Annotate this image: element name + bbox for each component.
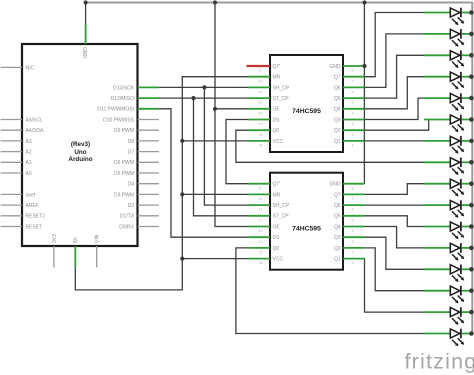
wire U2 Q2 to LED14 bbox=[364, 248, 429, 291]
Arduino pin A3 (left, unconnected) bbox=[1, 139, 32, 145]
LED7 bbox=[424, 136, 470, 154]
junction top bus to OE drop bbox=[213, 0, 217, 4]
svg-text:1: 1 bbox=[352, 144, 354, 148]
wire U1 Q1 to LED7 bbox=[364, 140, 429, 142]
wire U1 Q5 to LED3 bbox=[364, 55, 429, 98]
wire U1 Q2 to LED6 bbox=[364, 120, 429, 131]
svg-text:Q2: Q2 bbox=[334, 128, 341, 134]
fritzing watermark bbox=[405, 350, 474, 374]
svg-text:A1: A1 bbox=[26, 160, 32, 166]
junction LED9 cathode to GND rail bbox=[469, 181, 474, 186]
svg-text:14: 14 bbox=[259, 122, 263, 126]
svg-text:4: 4 bbox=[352, 111, 354, 115]
wire U1 Q7' serial-out stub (red) bbox=[247, 65, 271, 67]
wire U1 Q4 to LED4 bbox=[364, 77, 429, 109]
svg-text:D11 PWM/MOSI: D11 PWM/MOSI bbox=[97, 107, 134, 113]
svg-text:Q0: Q0 bbox=[273, 128, 280, 134]
Arduino pin D2 (right, unconnected) bbox=[128, 203, 159, 209]
wire GND bus down to U1 OE and U2 OE bbox=[215, 3, 249, 227]
U1 pin 12 ST_CP (left) bbox=[249, 96, 290, 105]
svg-text:Q5: Q5 bbox=[334, 214, 341, 220]
svg-text:VIN: VIN bbox=[95, 234, 101, 243]
svg-text:D6 PWM: D6 PWM bbox=[114, 160, 134, 166]
junction LED15 cathode to GND rail bbox=[469, 310, 474, 315]
wire 5V rail branch to U2 MR bbox=[182, 193, 248, 195]
U2 pin 1 Q1 (right) bbox=[334, 257, 365, 266]
junction 5V rail to U2 VCC tee bbox=[180, 257, 184, 261]
U1 pin 11 SH_CP (left) bbox=[249, 85, 290, 94]
U2 pin 6 Q6 (right) bbox=[334, 203, 365, 212]
wire D13/SCK to U1 SH_CP bbox=[159, 86, 249, 88]
U2 pin 11 SH_CP (left) bbox=[249, 203, 290, 212]
svg-text:MR: MR bbox=[273, 75, 281, 81]
svg-text:D9 PWM: D9 PWM bbox=[114, 128, 134, 134]
U1 pin 4 Q4 (right) bbox=[334, 107, 365, 116]
Arduino pin D4 (right, unconnected) bbox=[128, 182, 159, 188]
svg-text:RESET: RESET bbox=[26, 224, 43, 230]
svg-text:2: 2 bbox=[352, 251, 354, 255]
junction LED14 cathode to GND rail bbox=[469, 288, 474, 293]
svg-text:MR: MR bbox=[273, 192, 281, 198]
svg-text:11: 11 bbox=[259, 90, 263, 94]
svg-text:74HC595: 74HC595 bbox=[292, 226, 321, 233]
svg-text:Uno: Uno bbox=[74, 149, 86, 156]
wire U2 Q6 to LED10 bbox=[364, 204, 429, 206]
junction GND wire to top bus corner bbox=[84, 0, 88, 4]
svg-text:7: 7 bbox=[352, 197, 354, 201]
junction LED3 cathode to GND rail bbox=[469, 53, 474, 58]
Arduino pin RESET2 (left, unconnected) bbox=[1, 214, 46, 220]
svg-text:15: 15 bbox=[259, 251, 263, 255]
U1 pin 6 Q6 (right) bbox=[334, 85, 365, 94]
svg-text:74HC595: 74HC595 bbox=[292, 108, 321, 115]
U2 pin 2 Q2 (right) bbox=[334, 246, 365, 255]
U2 pin 15 Q0 (left) bbox=[249, 246, 280, 255]
LED13 bbox=[424, 265, 470, 283]
svg-text:10: 10 bbox=[259, 79, 263, 83]
junction LED7 cathode to GND rail bbox=[469, 139, 474, 144]
svg-text:GND: GND bbox=[329, 182, 341, 188]
Arduino pin D9 PWM (right, unconnected) bbox=[114, 128, 159, 134]
LED11 bbox=[424, 222, 470, 240]
svg-text:D10 PWM/SS: D10 PWM/SS bbox=[103, 117, 135, 123]
wire U2 Q4 to LED12 bbox=[364, 227, 429, 248]
Arduino pin D10 PWM/SS (right, unconnected) bbox=[103, 117, 159, 123]
svg-text:7: 7 bbox=[352, 79, 354, 83]
wire U2 Q0 to LED16 bbox=[236, 248, 429, 334]
svg-text:13: 13 bbox=[259, 111, 263, 115]
svg-text:A5/SCL: A5/SCL bbox=[26, 117, 43, 123]
LED4 bbox=[424, 72, 470, 90]
junction top bus to U1 GND drop bbox=[362, 0, 366, 4]
svg-text:5: 5 bbox=[352, 218, 354, 222]
junction U1 GND / U2 GND tee bbox=[362, 64, 366, 68]
svg-text:Q3: Q3 bbox=[334, 235, 341, 241]
svg-text:14: 14 bbox=[259, 240, 263, 244]
U1 pin 14 DS (left) bbox=[249, 117, 281, 126]
Arduino pin RESET (left, unconnected) bbox=[1, 224, 43, 230]
junction 5V rail to U2 MR tee bbox=[180, 192, 184, 196]
svg-text:D12/MISO: D12/MISO bbox=[111, 96, 134, 102]
Arduino pin ioref (left, unconnected) bbox=[1, 192, 36, 198]
svg-text:D2: D2 bbox=[128, 203, 135, 209]
Arduino pin A5/SCL (left, unconnected) bbox=[1, 117, 43, 123]
Arduino pin VIN (bottom, unconnected) bbox=[95, 234, 101, 267]
wire D12/MISO to U1 ST_CP bbox=[159, 97, 249, 99]
svg-text:A4/SDA: A4/SDA bbox=[26, 128, 44, 134]
svg-text:3: 3 bbox=[352, 122, 354, 126]
svg-text:12: 12 bbox=[259, 218, 263, 222]
wire U1 Q3 to LED5 bbox=[364, 98, 429, 119]
svg-text:16: 16 bbox=[259, 261, 263, 265]
svg-text:A3: A3 bbox=[26, 139, 32, 145]
svg-text:Q7': Q7' bbox=[273, 64, 281, 70]
svg-text:8: 8 bbox=[352, 186, 354, 190]
junction ST_CP net tee bbox=[191, 96, 195, 100]
svg-text:D3 PWM: D3 PWM bbox=[114, 192, 134, 198]
svg-text:3: 3 bbox=[352, 240, 354, 244]
Arduino pin A4/SDA (left, unconnected) bbox=[1, 128, 44, 134]
U2 pin 7 Q7 (right) bbox=[334, 192, 365, 201]
LED15 bbox=[424, 307, 470, 325]
svg-text:Q2: Q2 bbox=[334, 246, 341, 252]
svg-text:8: 8 bbox=[352, 69, 354, 73]
U1 pin 2 Q2 (right) bbox=[334, 128, 365, 137]
junction LED1 cathode to GND rail bbox=[469, 10, 474, 15]
Arduino pin 3V3 (bottom, unconnected) bbox=[52, 234, 58, 268]
Arduino pin D12/MISO (right) bbox=[111, 96, 159, 102]
junction U1 OE tee bbox=[213, 107, 217, 111]
U1 pin 16 VCC (left) bbox=[249, 139, 284, 148]
svg-text:D1/TX: D1/TX bbox=[120, 214, 135, 220]
LED5 bbox=[424, 93, 470, 111]
svg-text:DS: DS bbox=[273, 235, 281, 241]
Arduino pin GND (top) bbox=[81, 23, 87, 59]
Arduino pin N/C (left, unconnected) bbox=[1, 65, 35, 71]
wire U1 Q6 to LED2 bbox=[364, 34, 429, 88]
wire 5V rail to U1 MR bbox=[75, 77, 248, 290]
LED12 bbox=[424, 243, 470, 261]
wire ST_CP branch down to U2 ST_CP bbox=[194, 98, 249, 216]
junction LED8 cathode to GND rail bbox=[469, 160, 474, 165]
LED6 bbox=[424, 115, 470, 133]
svg-text:10: 10 bbox=[259, 197, 263, 201]
Arduino pin A1 (left, unconnected) bbox=[1, 160, 32, 166]
svg-text:A2: A2 bbox=[26, 150, 32, 156]
U2 pin 16 VCC (left) bbox=[249, 257, 284, 266]
wire U1 GND up to top bus bbox=[363, 3, 365, 67]
U2 pin 9 Q7' (left) bbox=[249, 182, 281, 191]
Arduino pin D13/SCK (right) bbox=[113, 85, 159, 91]
wire GND bus top bbox=[85, 2, 472, 4]
svg-text:ST_CP: ST_CP bbox=[273, 214, 290, 220]
wire U2 Q5 to LED11 bbox=[364, 216, 429, 227]
svg-text:SH_CP: SH_CP bbox=[273, 85, 290, 91]
U1 pin 7 Q7 (right) bbox=[334, 75, 365, 84]
wire U2 Q3 to LED13 bbox=[364, 237, 429, 269]
U2 pin 8 GND (right) bbox=[329, 182, 364, 191]
Arduino pin A2 (left, unconnected) bbox=[1, 150, 32, 156]
svg-text:DS: DS bbox=[273, 117, 281, 123]
junction LED6 cathode to GND rail bbox=[469, 117, 474, 122]
svg-text:SH_CP: SH_CP bbox=[273, 203, 290, 209]
Arduino Uno (Rev3) module bbox=[22, 44, 138, 246]
svg-text:Q6: Q6 bbox=[334, 203, 341, 209]
svg-text:4: 4 bbox=[352, 229, 354, 233]
svg-text:Q3: Q3 bbox=[334, 117, 341, 123]
Arduino pin AREF (left, unconnected) bbox=[1, 203, 39, 209]
LED14 bbox=[424, 286, 470, 304]
junction LED10 cathode to GND rail bbox=[469, 203, 474, 208]
svg-text:Q5: Q5 bbox=[334, 96, 341, 102]
U1 pin 9 Q7' (left) bbox=[249, 64, 281, 73]
svg-text:5V: 5V bbox=[73, 236, 79, 243]
U2 pin 12 ST_CP (left) bbox=[249, 214, 290, 223]
U1 pin 10 MR (left) bbox=[249, 75, 281, 84]
U1 pin 15 Q0 (left) bbox=[249, 128, 280, 137]
U2 pin 14 DS (left) bbox=[249, 235, 281, 244]
svg-text:1: 1 bbox=[352, 261, 354, 265]
svg-text:6: 6 bbox=[352, 208, 354, 212]
svg-text:9: 9 bbox=[259, 69, 261, 73]
Arduino pin 5V (bottom) bbox=[73, 236, 79, 267]
U1 pin 8 GND (right) bbox=[329, 64, 364, 73]
junction LED5 cathode to GND rail bbox=[469, 96, 474, 101]
Arduino pin D0/RX (right, unconnected) bbox=[119, 224, 159, 230]
svg-text:ST_CP: ST_CP bbox=[273, 96, 290, 102]
Arduino pin D6 PWM (right, unconnected) bbox=[114, 160, 159, 166]
svg-text:Q7': Q7' bbox=[273, 182, 281, 188]
svg-text:VCC: VCC bbox=[273, 139, 284, 145]
wire U1 Q7 to LED1 bbox=[364, 13, 429, 77]
wire GND bus right (LED cathode rail) bbox=[471, 2, 473, 334]
svg-text:GND: GND bbox=[81, 47, 87, 59]
junction LED2 cathode to GND rail bbox=[469, 32, 474, 37]
junction LED12 cathode to GND rail bbox=[469, 246, 474, 251]
svg-text:GND: GND bbox=[329, 64, 341, 70]
U2 pin 4 Q4 (right) bbox=[334, 224, 365, 233]
svg-text:VCC: VCC bbox=[273, 257, 284, 263]
LED10 bbox=[424, 200, 470, 218]
svg-text:13: 13 bbox=[259, 229, 263, 233]
LED2 bbox=[424, 29, 470, 47]
svg-text:Arduino: Arduino bbox=[68, 156, 92, 163]
svg-text:Q0: Q0 bbox=[273, 246, 280, 252]
wire U1 Q0 to LED8 bbox=[236, 130, 429, 162]
Arduino pin D7 (right, unconnected) bbox=[128, 150, 159, 156]
U1 pin 1 Q1 (right) bbox=[334, 139, 365, 148]
svg-text:(Rev3): (Rev3) bbox=[71, 141, 90, 148]
shift register U1 74HC595 bbox=[270, 55, 343, 152]
wire U2 Q7 to LED9 bbox=[364, 184, 429, 195]
U2 pin 10 MR (left) bbox=[249, 192, 281, 201]
U1 pin 5 Q5 (right) bbox=[334, 96, 365, 105]
Arduino pin A0 (left, unconnected) bbox=[1, 171, 32, 177]
wire GND pin to top bus bbox=[85, 3, 87, 24]
junction 5V rail to U1 VCC tee bbox=[180, 139, 184, 143]
LED16 bbox=[424, 329, 470, 347]
svg-text:Q4: Q4 bbox=[334, 224, 341, 230]
svg-text:OE: OE bbox=[273, 224, 281, 230]
svg-text:D7: D7 bbox=[128, 150, 135, 156]
shift register U2 74HC595 bbox=[270, 173, 343, 270]
svg-text:OE: OE bbox=[273, 107, 281, 113]
svg-text:12: 12 bbox=[259, 101, 263, 105]
svg-text:D0/RX: D0/RX bbox=[119, 224, 134, 230]
U1 pin 3 Q3 (right) bbox=[334, 117, 365, 126]
wire 5V rail branch to U2 VCC bbox=[182, 258, 248, 260]
wire SH_CP branch down to U2 SH_CP bbox=[204, 87, 248, 205]
U1 pin 13 OE (left) bbox=[249, 107, 281, 116]
svg-text:16: 16 bbox=[259, 144, 263, 148]
Arduino pin D5 PWM (right, unconnected) bbox=[114, 171, 159, 177]
LED8 bbox=[424, 158, 470, 176]
Arduino pin D1/TX (right, unconnected) bbox=[120, 214, 159, 220]
svg-text:Q7: Q7 bbox=[334, 75, 341, 81]
wire D11/MOSI to U2 DS bbox=[159, 109, 249, 237]
svg-text:6: 6 bbox=[352, 90, 354, 94]
junction SH_CP net tee bbox=[202, 85, 206, 89]
svg-text:Q1: Q1 bbox=[334, 257, 341, 263]
svg-text:fritzing: fritzing bbox=[405, 350, 474, 374]
wire U2 GND up to U1 GND wire bbox=[363, 66, 365, 184]
LED1 bbox=[424, 8, 470, 26]
LED9 bbox=[424, 179, 470, 197]
Arduino pin D3 PWM (right, unconnected) bbox=[114, 192, 159, 198]
svg-text:N/C: N/C bbox=[26, 65, 35, 71]
svg-text:Q4: Q4 bbox=[334, 107, 341, 113]
junction LED13 cathode to GND rail bbox=[469, 267, 474, 272]
svg-text:A0: A0 bbox=[26, 171, 32, 177]
wire U1 DS to U2 Q7' (cascade) bbox=[226, 120, 249, 184]
LED3 bbox=[424, 51, 470, 69]
svg-text:ioref: ioref bbox=[26, 192, 36, 198]
svg-text:D8: D8 bbox=[128, 139, 135, 145]
Arduino pin D11 PWM/MOSI (right) bbox=[97, 107, 158, 113]
wire U2 Q1 to LED15 bbox=[364, 259, 429, 313]
svg-text:9: 9 bbox=[259, 186, 261, 190]
svg-text:Q1: Q1 bbox=[334, 139, 341, 145]
svg-text:AREF: AREF bbox=[26, 203, 39, 209]
svg-text:2: 2 bbox=[352, 133, 354, 137]
svg-text:3V3: 3V3 bbox=[52, 234, 58, 243]
wire 5V rail branch to U1 VCC bbox=[182, 140, 248, 142]
junction LED4 cathode to GND rail bbox=[469, 74, 474, 79]
U2 pin 13 OE (left) bbox=[249, 224, 281, 233]
svg-text:Q7: Q7 bbox=[334, 192, 341, 198]
U2 pin 3 Q3 (right) bbox=[334, 235, 365, 244]
junction LED11 cathode to GND rail bbox=[469, 224, 474, 229]
svg-text:15: 15 bbox=[259, 133, 263, 137]
svg-text:11: 11 bbox=[259, 208, 263, 212]
svg-text:D4: D4 bbox=[128, 182, 135, 188]
svg-text:5: 5 bbox=[352, 101, 354, 105]
svg-text:D5 PWM: D5 PWM bbox=[114, 171, 134, 177]
svg-text:RESET2: RESET2 bbox=[26, 214, 46, 220]
U2 pin 5 Q5 (right) bbox=[334, 214, 365, 223]
Arduino pin D8 (right, unconnected) bbox=[128, 139, 159, 145]
svg-text:D13/SCK: D13/SCK bbox=[113, 85, 135, 91]
svg-text:Q6: Q6 bbox=[334, 85, 341, 91]
junction LED16 cathode to GND rail bbox=[469, 331, 474, 336]
